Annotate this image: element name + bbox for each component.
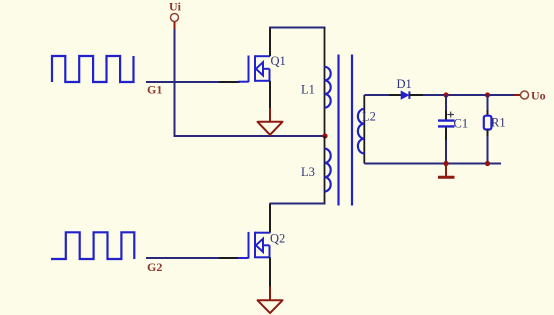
wire G2 to Q2 gate — [146, 257, 219, 259]
junction center tap — [322, 133, 327, 138]
square wave source G1 — [52, 56, 134, 82]
pin D1 anode — [389, 94, 402, 96]
diode D1 — [401, 91, 409, 99]
junction C1 bottom — [443, 161, 448, 166]
pin Q1 gate — [219, 81, 240, 83]
terminal Ui — [171, 14, 179, 30]
svg-text:R1: R1 — [491, 116, 506, 130]
inductor L1 lead/line — [324, 28, 326, 137]
pin C1 bottom — [445, 127, 447, 140]
capacitor C1 — [438, 121, 455, 127]
wire L3 to Q2 drain — [270, 203, 326, 205]
junction C1 top — [443, 92, 448, 97]
svg-text:G1: G1 — [147, 83, 162, 97]
svg-text:L3: L3 — [301, 165, 315, 179]
ground GND3 — [258, 287, 283, 314]
wire top rail left of D1 — [364, 94, 389, 96]
square wave source G2 — [51, 232, 134, 259]
terminal Uo — [514, 91, 529, 99]
pin Q2 gate — [219, 257, 240, 259]
ground GND2 — [438, 164, 455, 178]
svg-text:L2: L2 — [362, 110, 376, 124]
wire Ui vertical — [174, 29, 176, 136]
inductor L3 — [325, 149, 331, 192]
inductor L2 — [358, 109, 364, 154]
svg-text:Ui: Ui — [169, 0, 182, 14]
svg-text:C1: C1 — [454, 117, 469, 131]
pin D1 cathode — [409, 94, 423, 96]
wire C1 top lead — [445, 95, 447, 112]
wire Q1 drain to L1 — [269, 27, 326, 29]
inductor L1 — [325, 67, 331, 108]
inductor L3 lead/line — [324, 136, 326, 204]
pin Q1 source — [269, 81, 271, 108]
pin Q2 source — [269, 257, 271, 286]
svg-text:Uo: Uo — [531, 89, 546, 103]
resistor R1 — [484, 116, 492, 130]
wire R1 bottom lead — [487, 136, 489, 164]
svg-text:G2: G2 — [147, 260, 162, 274]
wire R1 top lead — [487, 95, 489, 110]
svg-text:Q2: Q2 — [270, 232, 285, 246]
wire Ui to transformer center tap — [174, 135, 326, 137]
svg-text:Q1: Q1 — [271, 54, 286, 68]
ground GND1 — [258, 108, 283, 135]
svg-text:L1: L1 — [301, 83, 315, 97]
pin R1 bottom — [487, 130, 489, 137]
inductor L2 lead/line — [363, 95, 365, 164]
transformer core — [339, 55, 353, 206]
pin C1 top — [445, 111, 447, 120]
wire top rail right of D1 — [423, 94, 514, 96]
pin Q1 drain — [269, 28, 271, 57]
junction R1 top — [485, 92, 490, 97]
transistor Q2 — [238, 232, 270, 259]
plus sign C1 — [447, 112, 454, 118]
pin Q2 drain — [269, 204, 271, 233]
wire G1 to Q1 gate — [146, 81, 219, 83]
pin R1 top — [487, 110, 489, 116]
transistor Q1 — [238, 55, 270, 82]
junction R1 bottom — [485, 161, 490, 166]
wire C1 bottom lead — [445, 140, 447, 164]
wire bottom rail — [364, 163, 501, 165]
svg-text:D1: D1 — [397, 77, 412, 91]
